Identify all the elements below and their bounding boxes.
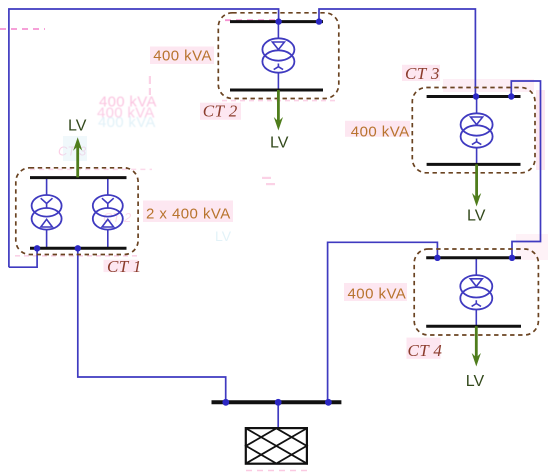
label background CT3 "400 kVA"	[345, 121, 410, 137]
svg-text:LV: LV	[68, 118, 87, 135]
transformer T3 (CT3, Dy)	[461, 113, 493, 147]
CT2 internal wires	[277, 22, 279, 39]
node: CT1 bottom bus left junction	[34, 245, 40, 251]
transformer T1a (CT1 left, Yd)	[32, 195, 62, 230]
node: CT3 top bus right junction	[508, 93, 514, 99]
busbar CT3 bottom	[427, 163, 521, 166]
external grid symbol	[246, 428, 307, 464]
node: CT4 top bus right junction	[509, 255, 515, 261]
svg-text:CT 2: CT 2	[103, 210, 132, 225]
station boundary CT4 (dashed)	[414, 249, 538, 335]
node: CT2 top bus left junction	[275, 18, 281, 24]
transformer T2 (CT2, Dy)	[262, 38, 294, 72]
busbar CT2 bottom	[230, 89, 323, 92]
svg-text:CT 3: CT 3	[405, 64, 440, 83]
LV arrow CT3 (down)	[472, 164, 481, 206]
label background CT4 "400 kVA"	[344, 283, 407, 301]
node: CT1 bottom bus right junction	[75, 245, 81, 251]
busbar CT1 bottom	[30, 247, 127, 250]
transformer T1b (CT1 right, Yd)	[93, 195, 123, 230]
svg-text:400 kVA: 400 kVA	[348, 285, 407, 302]
svg-text:LV: LV	[270, 135, 289, 152]
node: bottom bus left junction	[222, 399, 229, 406]
wire: CT4 top bus to bottom substation bus	[328, 242, 438, 402]
station boundary CT3 (dashed)	[412, 88, 535, 173]
busbar CT1 top	[30, 176, 127, 179]
node: CT3 top bus left junction	[473, 93, 479, 99]
CT1 internal wires	[46, 178, 48, 195]
LV arrow CT4 (down)	[472, 326, 481, 366]
svg-text:LV: LV	[466, 373, 485, 390]
wire: CT1 bottom bus down to bottom substation bus	[78, 248, 226, 402]
svg-text:2 x 400 kVA: 2 x 400 kVA	[146, 205, 231, 222]
label background CT2 "400 kVA"	[150, 47, 214, 65]
busbar bottom substation	[212, 400, 342, 404]
wire: left riser lower corner into CT1 bottom bus	[9, 248, 37, 267]
svg-text:400 kVA: 400 kVA	[98, 114, 156, 131]
wire: CT3 top bus to CT4 top bus (right riser)	[511, 81, 540, 258]
CT3 internal wires	[476, 97, 478, 114]
wire: top ring feeder from CT1 left riser to CT2 top bus	[9, 9, 279, 267]
wire: CT2 top bus to CT3 top bus	[319, 9, 475, 97]
label background "2 x 400 kVA"	[143, 201, 233, 223]
node: bottom bus right junction	[325, 399, 332, 406]
station boundary CT2 (dashed)	[218, 13, 338, 99]
svg-text:400 kVA: 400 kVA	[351, 123, 410, 140]
wire: bottom bus to external grid symbol	[277, 402, 279, 428]
svg-text:LV: LV	[467, 207, 486, 224]
label background "CT 3"	[402, 65, 440, 81]
busbar CT2 top	[230, 20, 323, 23]
label background "CT 1"	[104, 260, 139, 272]
busbar CT3 top	[427, 95, 521, 98]
LV arrow CT1 (up)	[73, 137, 82, 177]
svg-text:CT 2: CT 2	[203, 102, 238, 121]
busbar CT4 bottom	[426, 325, 521, 328]
LV arrow CT2 (down)	[274, 90, 283, 131]
svg-text:CT 1: CT 1	[107, 257, 142, 276]
label background "CT 4"	[407, 338, 441, 359]
svg-text:LV: LV	[215, 228, 232, 244]
label background "CT 2"	[200, 103, 241, 120]
node: bottom bus middle junction	[275, 399, 282, 406]
node: CT2 top bus right junction	[316, 18, 322, 24]
busbar CT4 top	[426, 256, 521, 259]
station boundary CT1 (dashed)	[16, 168, 138, 255]
svg-text:400 kVA: 400 kVA	[153, 48, 212, 65]
CT4 internal wires	[475, 258, 477, 276]
transformer T4 (CT4, Dy)	[460, 275, 492, 309]
node: CT4 top bus left junction	[434, 255, 440, 261]
svg-text:CT 4: CT 4	[408, 341, 443, 360]
